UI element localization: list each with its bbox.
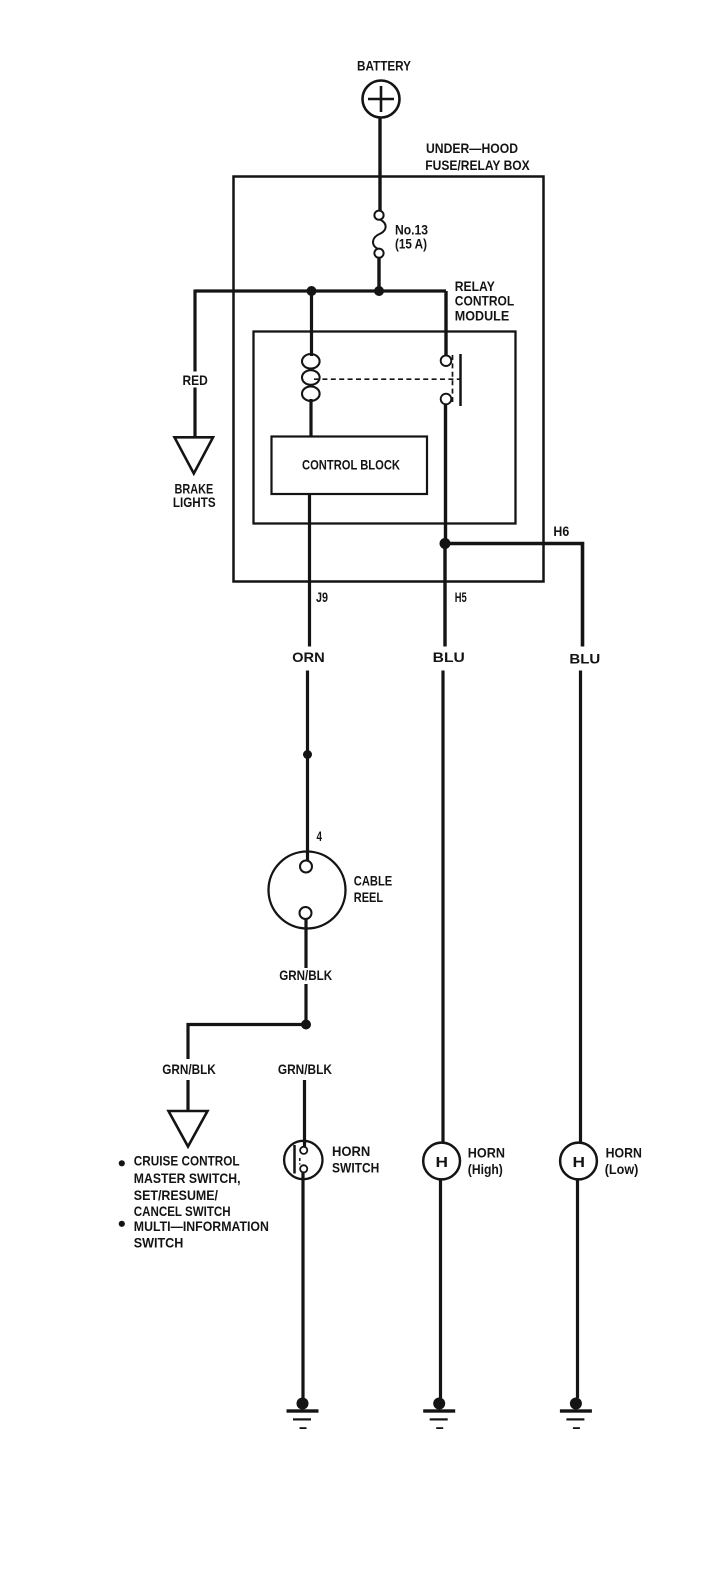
svg-text:CANCEL SWITCH: CANCEL SWITCH xyxy=(134,1203,231,1219)
node junction dot GRN/BLK branch xyxy=(301,1020,311,1030)
relay control module box xyxy=(254,332,516,524)
arrow to cruise control switches xyxy=(169,1111,208,1147)
svg-text:FUSE/RELAY BOX: FUSE/RELAY BOX xyxy=(425,157,530,173)
svg-text:CONTROL BLOCK: CONTROL BLOCK xyxy=(302,456,400,472)
wire fuse to node xyxy=(377,258,380,291)
svg-text:H5: H5 xyxy=(455,589,467,605)
svg-text:H: H xyxy=(573,1154,586,1171)
wire ORN to cable reel xyxy=(306,671,309,862)
svg-text:UNDER—HOOD: UNDER—HOOD xyxy=(426,140,518,156)
cable reel C1 xyxy=(269,852,346,929)
relay contact moving arm (dashed) xyxy=(452,355,454,404)
relay contact xyxy=(441,354,461,406)
svg-text:H6: H6 xyxy=(553,523,569,539)
wire relay contact to H5 junction xyxy=(444,404,447,543)
wire control block to J9 xyxy=(308,494,311,647)
wire branch left to switches arrow xyxy=(188,1025,306,1060)
relay actuation dashed line xyxy=(314,378,460,380)
svg-text:SWITCH: SWITCH xyxy=(332,1159,379,1175)
wire H5 drop below box xyxy=(443,544,446,647)
svg-text:CRUISE CONTROL: CRUISE CONTROL xyxy=(134,1153,240,1169)
horn switch S1 xyxy=(284,1141,322,1179)
node junction dot at fuse drop xyxy=(374,286,384,296)
svg-text:(Low): (Low) xyxy=(605,1161,639,1177)
svg-text:REEL: REEL xyxy=(354,889,384,905)
svg-text:RED: RED xyxy=(183,372,208,388)
wire BLU to horn low xyxy=(579,671,582,1144)
wire H6 branch xyxy=(445,544,583,647)
svg-text:HORN: HORN xyxy=(606,1145,642,1161)
ground G3 xyxy=(560,1398,592,1430)
wire node to relay coil xyxy=(310,291,313,356)
wire GRN/BLK to horn switch xyxy=(303,1080,306,1147)
wire RED branch down xyxy=(193,290,196,372)
wire horn high to ground xyxy=(439,1180,442,1399)
wire horn low to ground xyxy=(576,1180,579,1399)
wire bus to relay contact xyxy=(444,291,447,356)
node dot on ORN wire xyxy=(303,750,312,759)
ground G2 xyxy=(423,1398,455,1430)
node junction dot at coil drop xyxy=(307,286,317,296)
wire battery to fuse xyxy=(378,118,381,211)
wire BLU to horn high xyxy=(441,671,444,1144)
control block U1 xyxy=(272,437,428,495)
horn H1 (High) xyxy=(423,1143,460,1180)
svg-text:MULTI—INFORMATION: MULTI—INFORMATION xyxy=(134,1218,269,1234)
ground G1 xyxy=(287,1398,319,1430)
svg-text:GRN/BLK: GRN/BLK xyxy=(162,1061,216,1077)
svg-text:J9: J9 xyxy=(316,589,328,605)
svg-text:CONTROL: CONTROL xyxy=(455,292,515,308)
svg-text:HORN: HORN xyxy=(332,1143,370,1159)
svg-text:CABLE: CABLE xyxy=(354,872,392,888)
svg-text:4: 4 xyxy=(317,828,323,844)
svg-text:MODULE: MODULE xyxy=(455,308,509,324)
wire coil to control block xyxy=(309,399,312,437)
fuse No.13 (15 A) xyxy=(373,211,386,258)
wire horn switch to ground xyxy=(301,1172,304,1398)
svg-text:BATTERY: BATTERY xyxy=(357,58,412,74)
arrow to brake lights xyxy=(175,437,214,473)
wire below cable reel xyxy=(304,919,307,968)
battery B1 xyxy=(363,81,400,118)
svg-text:(15 A): (15 A) xyxy=(395,236,427,252)
wire bus y=291 xyxy=(195,289,446,292)
bullet 1 xyxy=(119,1160,125,1166)
svg-text:BLU: BLU xyxy=(569,650,600,666)
svg-text:H: H xyxy=(436,1154,449,1171)
svg-text:ORN: ORN xyxy=(292,649,325,665)
svg-text:SWITCH: SWITCH xyxy=(134,1235,184,1251)
svg-text:MASTER SWITCH,: MASTER SWITCH, xyxy=(134,1170,241,1186)
svg-text:HORN: HORN xyxy=(468,1145,505,1161)
relay coil L1 xyxy=(302,354,320,401)
svg-text:LIGHTS: LIGHTS xyxy=(173,494,216,510)
svg-text:(High): (High) xyxy=(468,1161,503,1177)
horn H2 (Low) xyxy=(560,1143,597,1180)
svg-text:BLU: BLU xyxy=(433,649,465,665)
bullet 2 xyxy=(119,1221,125,1227)
svg-text:GRN/BLK: GRN/BLK xyxy=(278,1061,332,1077)
under-hood fuse/relay box xyxy=(234,177,544,582)
svg-text:SET/RESUME/: SET/RESUME/ xyxy=(134,1187,218,1203)
svg-text:GRN/BLK: GRN/BLK xyxy=(279,967,332,983)
node junction dot H5/H6 xyxy=(440,538,451,549)
